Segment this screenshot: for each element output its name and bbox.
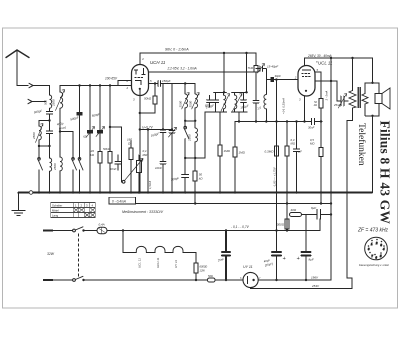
anode supply line 96V [140,52,256,54]
resistor 300 [286,215,288,220]
svg-text:15-40pF: 15-40pF [267,64,278,68]
svg-text:2500: 2500 [53,163,57,171]
svg-text:2: 2 [126,86,129,90]
svg-text:0,3MΩ: 0,3MΩ [265,150,275,154]
svg-text:Lang: Lang [52,214,59,218]
wire speaker feed [372,58,374,193]
electrolytic 8uF [301,252,311,256]
osc transformer coil A [184,84,186,121]
capacitor 500pF series [47,112,53,147]
switch table [51,203,96,218]
coupling cap 50 [204,103,210,108]
line y121 end [321,121,323,123]
filter row [286,204,288,213]
tuning capacitor section2 [89,86,91,131]
svg-text:U≈0,7V: U≈0,7V [142,125,153,129]
svg-text:Filius 8 H 43 GW: Filius 8 H 43 GW [378,121,393,225]
svg-text:50Ω: 50Ω [208,274,213,278]
cap 25nF bias [222,231,231,281]
IF transformer 2 tank C [253,72,259,121]
svg-text:0,4A: 0,4A [99,222,105,226]
osc switch S4 [184,121,186,158]
cap col 296 [294,122,300,193]
svg-text:10nF: 10nF [155,166,162,170]
tube top pin wire [139,53,141,65]
tube2 cathode [304,96,306,122]
pin line y81 [315,80,337,82]
svg-text:2500: 2500 [188,134,192,142]
svg-text:UCH 11: UCH 11 [156,257,160,268]
mains switch 2 [52,279,73,281]
svg-text:2500: 2500 [52,99,56,107]
mains stub 1 [44,229,52,231]
meter box [109,197,136,204]
resistor 50k anode [154,84,156,96]
screen line [149,71,255,73]
volume pot with wiper [121,181,124,183]
line y203 [136,203,332,205]
tube2 top pin [304,58,306,66]
resistor 7k screen [255,53,257,65]
rectifier socket UY11 [243,272,258,287]
resistor 0.3M [275,146,279,156]
tube UCL11 [298,66,315,97]
svg-text:µF: µF [299,150,303,154]
svg-text:2500: 2500 [179,100,183,108]
wire x331 [330,58,332,280]
wire second grid line [118,81,132,86]
svg-text:2: 2 [294,75,297,79]
svg-text:Telefunken: Telefunken [356,123,367,166]
antenna plug connector [29,83,33,87]
svg-text:kΩ: kΩ [314,103,317,107]
wire link row [39,145,50,147]
capacitor 50nF [115,155,121,170]
switch S3 [79,170,81,193]
anode line 265V [305,57,373,59]
svg-text:ZF = 473 kHz: ZF = 473 kHz [357,228,389,234]
tone trimmer cap 25nF [337,81,348,106]
resistor 160ohm cathode [130,141,132,148]
screen pin wire [315,72,321,99]
cap 160pF column [160,84,166,193]
svg-text:2500: 2500 [32,132,36,140]
svg-text:12W: 12W [200,269,206,273]
svg-text:50nF: 50nF [110,167,117,171]
wire top rail right [60,85,132,87]
IF transformer 1 tank B [232,53,248,122]
wire padder link [185,112,214,158]
coil L2 2500 adjustable [59,86,61,132]
cap 30pF series [266,79,270,81]
heater filaments [123,252,196,254]
svg-text:Fassungslochung v. unten: Fassungslochung v. unten [359,263,390,267]
ZF socket diagram [365,237,388,260]
speaker [375,94,382,104]
resistor 0.5M [319,148,323,157]
wire branch to L3 [39,121,50,127]
svg-text:7kΩ: 7kΩ [248,66,254,70]
svg-text:UCH 11: UCH 11 [150,60,166,65]
IF coupling cap 150pF [149,81,196,87]
svg-text:96V, 0 - 2,6mA: 96V, 0 - 2,6mA [165,48,189,52]
osc coil lower [194,121,196,158]
svg-text:500: 500 [44,100,48,105]
wire x110 [109,86,111,152]
svg-text:1MΩ: 1MΩ [224,149,231,153]
wire antenna down [17,51,28,86]
gang link [78,234,80,278]
svg-text:100-65V: 100-65V [105,76,118,80]
heater return line [84,279,244,281]
antenna [6,50,29,58]
rectifier output line [251,287,352,290]
resistor 50k [108,152,112,164]
svg-text:50kΩ: 50kΩ [103,147,111,151]
switch S2 [72,170,74,193]
transformer core [357,87,359,108]
fuse 0.4A [84,230,98,232]
second input connector [28,99,46,103]
svg-text:UY 11: UY 11 [174,260,178,268]
svg-text:UY 11: UY 11 [243,265,253,269]
svg-text:265V, 30 - 40mA: 265V, 30 - 40mA [307,54,332,58]
svg-text:1,5mA: 1,5mA [148,181,152,189]
svg-text:MΩ: MΩ [143,153,148,157]
svg-text:Mittel: Mittel [52,209,59,213]
wire top rail left [33,85,50,87]
series resistor 50 [208,278,216,282]
cathode wire pin3 [139,89,141,193]
line y121 [235,119,321,125]
svg-text:2,2-65V, 3,2 - 1,6mA: 2,2-65V, 3,2 - 1,6mA [167,67,197,71]
mains stub 2 [44,279,52,281]
junction dots [78,84,80,86]
svg-text:1MΩ: 1MΩ [239,151,246,155]
coil L5 [59,132,61,193]
svg-text:40Ω: 40Ω [291,208,297,212]
wire avc jog [110,127,122,182]
svg-text:150pF: 150pF [162,79,171,83]
chassis bus [19,192,373,194]
trimmer 15-40pF [256,66,266,71]
svg-text:254V: 254V [311,284,320,288]
ground [12,193,25,216]
wire osc link [60,132,73,159]
svg-text:30pF: 30pF [275,74,282,78]
switch S1 [38,146,40,193]
svg-text:300Ω: 300Ω [277,223,285,227]
resistor 20k [98,152,102,164]
svg-text:Schalter: Schalter [52,204,62,208]
svg-text:0 - 0,4mA: 0 - 0,4mA [112,199,126,203]
tube UCH11 [132,65,149,96]
svg-text:- 0,1 - - 0,7V: - 0,1 - - 0,7V [231,225,250,229]
detector wire [169,84,175,193]
IF transformer 1 tank A [213,53,227,193]
resistor 1M [234,122,236,148]
electrolytic 40uF [272,252,282,256]
svg-text:32W: 32W [47,252,55,256]
mains switch 1 [52,230,73,232]
trimmer capacitor [99,86,101,131]
svg-text:25nF: 25nF [333,103,341,107]
bias line [107,230,320,232]
svg-text:Meßinstrument : 3333Ω/V: Meßinstrument : 3333Ω/V [122,210,164,214]
dropper resistor 600 [195,253,197,264]
coil L4 [49,146,51,193]
svg-text:2500: 2500 [189,100,193,108]
cap 300pF [182,158,189,193]
svg-text:50kΩ: 50kΩ [144,97,152,101]
output transformer primary [347,58,353,289]
svg-text:≈14, 0,35mA: ≈14, 0,35mA [282,98,286,114]
svg-text:8µF: 8µF [309,258,314,262]
coil L3 2500 adjustable [38,121,40,147]
resistor 50k osc [194,158,196,171]
osc transformer coil B [194,84,196,121]
coil value labels rotated [32,99,193,268]
svg-text:8µF: 8µF [311,206,316,210]
resistor col 287 [286,122,288,147]
svg-text:30nF: 30nF [308,126,315,130]
svg-text:196V: 196V [311,275,319,279]
wire x276 [275,80,277,280]
wire osc link [185,120,195,122]
svg-text:UCL 11: UCL 11 [318,61,333,66]
svg-text:3 - 5mA: 3 - 5mA [325,91,329,101]
tuning capacitor C 400p section1 [79,86,81,113]
wire x148 [147,130,149,193]
coil L1 500 [49,86,51,112]
speaker loop [365,83,379,116]
svg-text:-1,85 — +1,75V: -1,85 — +1,75V [273,166,277,187]
svg-text:UCL 11: UCL 11 [137,258,141,268]
svg-text:6000Ω: 6000Ω [200,265,208,269]
heater line down [122,231,124,253]
AVC line [140,129,172,131]
